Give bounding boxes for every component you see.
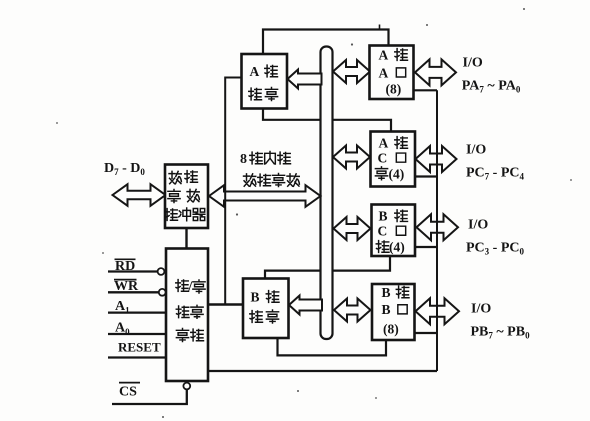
wire: B-group control top to Port C lower bottom (265, 256, 390, 279)
overline: WR (114, 279, 137, 281)
box: A-group control (242, 54, 288, 109)
wire: A-group control bottom to Port C upper top (263, 109, 391, 132)
internal data bus vertical bar (321, 47, 333, 340)
wire: Port B right stub (415, 332, 438, 334)
bubble: RD active-low input (158, 268, 165, 275)
svg-text:(8): (8) (386, 82, 402, 97)
svg-text:PB7 ~ PB0: PB7 ~ PB0 (471, 325, 531, 341)
box: A-group Port C upper (4) (371, 132, 416, 187)
box: data bus buffer (165, 165, 208, 229)
text: read/write control logic box (读/写/控制/逻辑) (176, 280, 189, 292)
svg-text:A: A (250, 64, 260, 79)
svg-text:B: B (382, 285, 391, 300)
arrow: Port C lower I/O PC3-PC0 (bidirectional) (417, 214, 459, 240)
arrow: internal bus to Port C upper (bidirectional) (333, 146, 370, 169)
box: B-group control (243, 279, 289, 339)
svg-text:D7 - D0: D7 - D0 (104, 161, 145, 177)
svg-text:C: C (378, 224, 388, 239)
wire: right vertical control line (436, 90, 438, 371)
svg-text:(4): (4) (389, 166, 405, 181)
wire: A-group control top to Port A top (263, 30, 389, 55)
svg-text:C: C (378, 151, 388, 166)
wire: RESET input (108, 356, 166, 358)
label: data bus (数据总线) line 2 of bus caption (244, 174, 256, 186)
overline: CS (119, 382, 140, 384)
svg-text:A: A (379, 48, 389, 63)
arrow: Port C upper I/O PC7-PC4 (bidirectional) (416, 146, 457, 172)
svg-text:PC3 - PC0: PC3 - PC0 (466, 241, 525, 257)
bubble: WR active-low input (159, 289, 166, 296)
svg-text:RESET: RESET (118, 339, 161, 354)
svg-text:PC7 - PC4: PC7 - PC4 (466, 166, 525, 182)
wire: CS input (112, 390, 187, 404)
scan artifact tick on top wire (379, 25, 381, 31)
arrow: D7-D0 external data bus (bidirectional) (113, 184, 166, 206)
text: data bus buffer box (数据/总线/缓冲器) (169, 171, 181, 183)
svg-text:B: B (382, 302, 391, 317)
svg-text:(8): (8) (383, 322, 399, 337)
svg-text:A: A (379, 136, 389, 151)
wire: A-group control left side down to B-group control line (225, 78, 241, 305)
svg-text:/: / (188, 279, 193, 294)
wire: read-write logic to B-group control (208, 303, 243, 305)
svg-text:B: B (379, 209, 388, 224)
svg-text:I/O: I/O (463, 55, 483, 70)
svg-text:I/O: I/O (466, 143, 486, 158)
arrow: internal bus to Port B (bidirectional) (334, 299, 371, 322)
bubble: CS active-low input (183, 383, 190, 390)
arrow: Port A I/O PA7-PA0 (bidirectional) (415, 59, 456, 85)
arrow: internal bus to A-group control (288, 70, 322, 89)
arrow: internal bus to B-group control (289, 296, 322, 315)
wire: A1 input (108, 311, 166, 313)
arrow: internal bus to Port A (bidirectional) (333, 60, 370, 83)
svg-text:(4): (4) (389, 240, 405, 255)
wire: Port C lower right stub (415, 246, 437, 248)
wire: Port C upper right stub (415, 175, 437, 177)
wire: RD input (108, 270, 158, 272)
svg-text:I/O: I/O (468, 218, 488, 233)
svg-text:I/O: I/O (471, 302, 491, 317)
wire: B-group control bottom to Port B bottom (278, 338, 387, 355)
arrow: Port B I/O PB7-PB0 (bidirectional) (416, 298, 460, 324)
svg-text:CS: CS (119, 384, 137, 399)
overline: RD (115, 258, 136, 260)
box: B-group Port B (8) (372, 284, 415, 340)
wire: data bus buffer to read-write logic (185, 228, 187, 249)
svg-text:RD: RD (115, 259, 135, 274)
box: A-group Port A (8) (370, 46, 414, 100)
svg-text:8: 8 (240, 152, 247, 167)
svg-text:WR: WR (114, 279, 139, 294)
wire: A0 input (108, 333, 166, 335)
wire: read-write logic long control line bottom (208, 370, 437, 372)
svg-text:B: B (251, 290, 260, 305)
arrow: internal bus to Port C lower (bidirectional) (334, 217, 371, 240)
wire: Port A right stub (414, 89, 438, 91)
svg-text:PA7 ~ PA0: PA7 ~ PA0 (462, 78, 521, 94)
wire: WR input (108, 291, 159, 293)
svg-text:A: A (379, 66, 389, 81)
box: read/write control logic (166, 249, 208, 382)
arrow: 8-bit internal data bus (bidirectional) (209, 185, 321, 207)
box: B-group Port C lower (4) (372, 205, 416, 257)
